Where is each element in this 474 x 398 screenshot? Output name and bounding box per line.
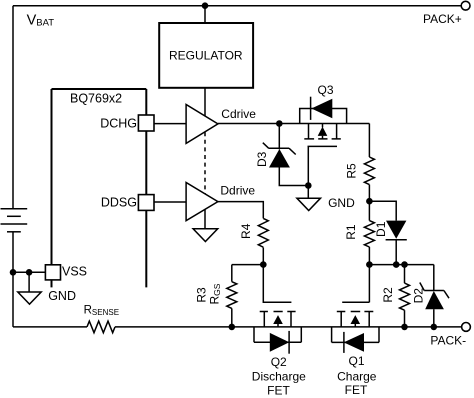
svg-text:DDSG: DDSG: [101, 196, 137, 210]
svg-text:R3: R3: [194, 287, 208, 303]
svg-text:BQ769x2: BQ769x2: [70, 92, 122, 106]
svg-text:Ddrive: Ddrive: [220, 184, 255, 198]
svg-text:Q2: Q2: [271, 355, 287, 369]
svg-text:D1: D1: [374, 221, 388, 237]
svg-text:FET: FET: [267, 384, 290, 398]
svg-text:D2: D2: [411, 288, 425, 304]
svg-text:D3: D3: [255, 151, 269, 167]
svg-text:PACK-: PACK-: [430, 334, 466, 348]
svg-text:VSS: VSS: [62, 264, 87, 278]
svg-text:R5: R5: [345, 163, 359, 179]
svg-text:DCHG: DCHG: [100, 116, 137, 130]
svg-text:PACK+: PACK+: [423, 12, 462, 26]
svg-text:Q3: Q3: [318, 83, 334, 97]
svg-text:R2: R2: [381, 287, 395, 303]
svg-text:FET: FET: [345, 383, 368, 397]
svg-text:Charge: Charge: [337, 370, 377, 384]
svg-text:Discharge: Discharge: [252, 370, 306, 384]
svg-text:Cdrive: Cdrive: [221, 107, 256, 121]
svg-text:R4: R4: [239, 223, 253, 239]
svg-text:Q1: Q1: [348, 354, 364, 368]
svg-text:REGULATOR: REGULATOR: [169, 48, 243, 62]
svg-text:GND: GND: [48, 289, 76, 303]
svg-text:R1: R1: [344, 224, 358, 240]
svg-text:GND: GND: [328, 196, 355, 210]
